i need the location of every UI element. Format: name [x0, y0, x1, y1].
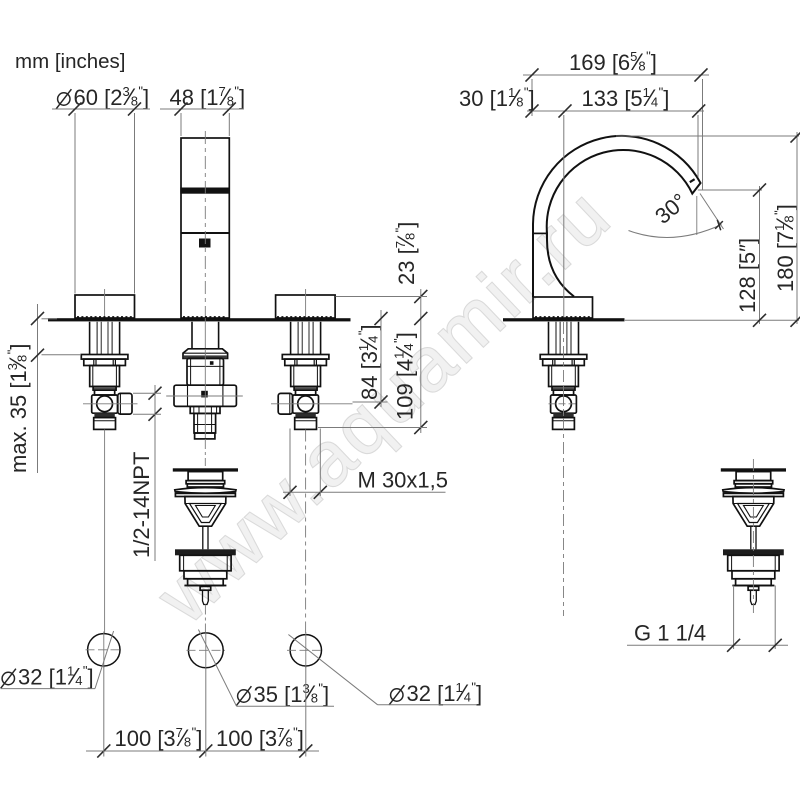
right handle front view — [276, 295, 336, 318]
mounting deck front view — [48, 318, 351, 321]
dim 109 — [391, 332, 419, 420]
left handle front view — [75, 295, 135, 318]
dim NPT — [129, 452, 154, 558]
svg-text:M 30x1,5: M 30x1,5 — [358, 468, 449, 493]
tip projection lines — [698, 189, 762, 191]
right valve under-deck — [290, 322, 292, 355]
aerator tick — [690, 179, 695, 182]
svg-text:32 [11⁄4"]: 32 [11⁄4"] — [407, 680, 483, 708]
hole right — [290, 635, 321, 666]
svg-text:128 [5″]: 128 [5″] — [735, 238, 760, 313]
pop-up drain front view — [173, 468, 238, 471]
svg-text:mm [inches]: mm [inches] — [15, 50, 126, 73]
svg-text:1/2-14NPT: 1/2-14NPT — [129, 452, 154, 558]
svg-text:35 [13⁄8"]: 35 [13⁄8"] — [254, 681, 330, 709]
svg-text:30 [11⁄8"]: 30 [11⁄8"] — [459, 85, 535, 113]
left valve under-deck — [89, 322, 91, 355]
svg-text:32 [11⁄4"]: 32 [11⁄4"] — [18, 663, 94, 691]
watermark — [141, 172, 628, 640]
hole centre verticals — [103, 632, 105, 669]
svg-text:84 [31⁄4"]: 84 [31⁄4"] — [356, 324, 384, 400]
spout body front view — [181, 138, 229, 318]
dim 84 — [356, 324, 384, 400]
spout shank under-deck — [191, 322, 193, 349]
svg-text:48 [17⁄8"]: 48 [17⁄8"] — [170, 84, 246, 112]
dim 128 — [735, 238, 760, 313]
spout flange cone — [183, 349, 228, 359]
spout centerline — [204, 131, 206, 317]
dim max35 — [5, 344, 33, 473]
dim 180 — [772, 204, 800, 292]
spout valve tail — [190, 406, 220, 413]
hole left — [88, 634, 120, 666]
dim 30 deg — [700, 194, 724, 230]
spout valve block — [174, 385, 236, 406]
deck side view — [503, 318, 625, 321]
pop-up drain side view — [721, 468, 786, 471]
side shank and valve — [548, 322, 550, 355]
hole middle — [188, 633, 223, 668]
svg-text:max. 35 [13⁄8"]: max. 35 [13⁄8"] — [5, 344, 33, 473]
svg-text:G 1 1/4: G 1 1/4 — [634, 621, 706, 646]
svg-text:60 [23⁄8"]: 60 [23⁄8"] — [74, 84, 150, 112]
spout side view — [533, 136, 701, 297]
spout valve neck — [187, 358, 224, 385]
dim 23 — [393, 222, 421, 285]
spout base side view — [533, 297, 593, 318]
